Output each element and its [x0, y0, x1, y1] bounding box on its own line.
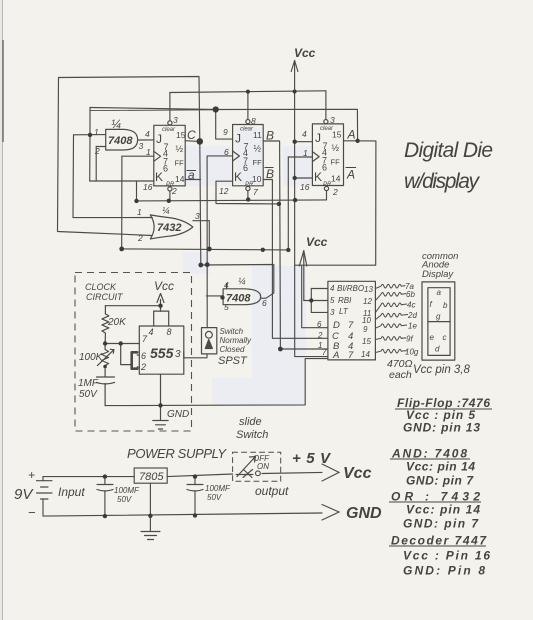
svg-text:clear: clear [162, 127, 176, 133]
svg-text:6: 6 [317, 320, 322, 329]
svg-text:20K: 20K [107, 317, 127, 328]
svg-text:4: 4 [330, 284, 335, 293]
svg-text:8: 8 [251, 116, 256, 126]
svg-text:C: C [187, 128, 196, 142]
svg-text:2: 2 [317, 331, 323, 340]
svg-text:FF: FF [175, 159, 185, 168]
svg-text:6: 6 [141, 351, 146, 361]
svg-text:SPST: SPST [218, 355, 248, 367]
svg-text:PR: PR [166, 182, 175, 188]
svg-text:2: 2 [137, 233, 143, 243]
svg-text:K: K [314, 170, 322, 184]
svg-text:1: 1 [303, 148, 308, 158]
svg-text:FF: FF [253, 158, 263, 167]
svg-text:GND: pin 7: GND: pin 7 [403, 517, 479, 531]
svg-text:15: 15 [362, 337, 371, 346]
svg-text:6b: 6b [406, 290, 415, 299]
svg-text:15: 15 [332, 130, 342, 140]
svg-text:A: A [346, 168, 355, 182]
svg-text:16: 16 [143, 182, 153, 192]
svg-text:Vcc: pin 14: Vcc: pin 14 [406, 460, 475, 474]
svg-text:clear: clear [240, 127, 254, 133]
svg-text:A: A [347, 128, 356, 142]
svg-text:2: 2 [332, 187, 338, 197]
svg-text:5: 5 [330, 296, 335, 305]
svg-text:4: 4 [145, 129, 150, 139]
svg-text:¼: ¼ [111, 117, 121, 131]
svg-text:GND: pin 13: GND: pin 13 [403, 421, 480, 435]
svg-text:B: B [266, 167, 274, 181]
svg-text:GND: GND [167, 409, 189, 420]
svg-text:Decoder 7447: Decoder 7447 [391, 534, 487, 548]
svg-text:Vcc: Vcc [343, 465, 372, 482]
svg-text:9: 9 [363, 325, 368, 334]
svg-text:GND: pin 7: GND: pin 7 [406, 474, 474, 488]
svg-text:2: 2 [94, 146, 100, 156]
svg-text:1MF: 1MF [78, 378, 99, 389]
svg-text:K: K [234, 170, 242, 184]
svg-text:12: 12 [363, 297, 372, 306]
svg-text:7408: 7408 [108, 135, 133, 147]
svg-text:FF: FF [331, 158, 341, 167]
svg-text:3: 3 [173, 115, 178, 125]
svg-text:50V: 50V [79, 389, 98, 400]
svg-text:Vcc : Pin 16: Vcc : Pin 16 [403, 549, 490, 563]
svg-text:d: d [435, 345, 440, 354]
svg-text:7805: 7805 [139, 471, 164, 483]
svg-text:9f: 9f [406, 335, 413, 344]
svg-text:1: 1 [94, 127, 99, 137]
svg-text:4: 4 [302, 129, 307, 139]
svg-text:7: 7 [322, 348, 327, 357]
svg-text:3: 3 [330, 115, 335, 125]
svg-text:100K: 100K [79, 352, 104, 363]
svg-text:100MF: 100MF [205, 484, 231, 493]
svg-text:+5V: +5V [292, 450, 332, 467]
svg-text:7: 7 [253, 187, 258, 197]
svg-text:¼: ¼ [238, 276, 246, 286]
svg-text:5: 5 [224, 302, 229, 312]
svg-text:100MF: 100MF [114, 486, 140, 495]
svg-text:GND: GND [346, 505, 382, 522]
svg-text:Digital Die: Digital Die [404, 139, 493, 162]
svg-text:+: + [28, 468, 35, 482]
svg-text:8: 8 [167, 327, 172, 337]
svg-text:16: 16 [300, 182, 310, 192]
svg-text:3: 3 [195, 211, 200, 221]
svg-text:OR : 7432: OR : 7432 [391, 490, 480, 504]
svg-text:3: 3 [330, 308, 335, 317]
svg-text:2d: 2d [407, 311, 417, 320]
svg-text:each: each [389, 369, 412, 381]
svg-text:Normally: Normally [220, 336, 253, 345]
svg-text:Vcc: Vcc [154, 279, 174, 293]
svg-text:RBI: RBI [338, 296, 352, 305]
svg-text:2: 2 [140, 362, 146, 372]
svg-text:½: ½ [332, 143, 340, 153]
svg-text:Vcc: Vcc [294, 46, 316, 60]
svg-text:B: B [266, 129, 274, 143]
svg-text:3: 3 [175, 349, 181, 360]
svg-text:Vcc: pin 14: Vcc: pin 14 [406, 503, 480, 517]
svg-text:10: 10 [252, 174, 262, 184]
svg-text:slide: slide [239, 416, 262, 428]
svg-text:6: 6 [224, 147, 229, 157]
svg-text:10g: 10g [405, 348, 419, 357]
svg-text:13: 13 [364, 285, 373, 294]
svg-text:J: J [235, 132, 241, 146]
svg-text:BI/RBO: BI/RBO [337, 284, 364, 293]
svg-text:½: ½ [176, 144, 184, 154]
svg-text:CLOCK: CLOCK [85, 282, 117, 292]
svg-text:6: 6 [322, 163, 327, 173]
svg-text:4: 4 [149, 327, 154, 337]
svg-text:GND: Pin 8: GND: Pin 8 [403, 564, 485, 578]
svg-text:10: 10 [362, 316, 371, 325]
svg-text:555: 555 [150, 345, 174, 361]
svg-text:Closed: Closed [220, 345, 245, 354]
svg-text:14: 14 [331, 174, 341, 184]
svg-text:Switch: Switch [220, 327, 244, 336]
svg-text:c: c [443, 333, 447, 342]
svg-text:7: 7 [348, 350, 354, 361]
svg-text:Display: Display [422, 269, 454, 280]
svg-text:½: ½ [254, 144, 262, 154]
svg-text:CIRCUIT: CIRCUIT [86, 292, 124, 302]
svg-text:9: 9 [223, 127, 228, 137]
svg-text:4: 4 [224, 280, 229, 290]
svg-text:POWER SUPPLY: POWER SUPPLY [127, 446, 227, 461]
svg-text:50V: 50V [207, 493, 222, 502]
svg-text:b: b [443, 301, 448, 310]
svg-text:AND: 7408: AND: 7408 [391, 447, 467, 461]
svg-text:Vcc pin 3,8: Vcc pin 3,8 [413, 364, 470, 376]
svg-text:Switch: Switch [236, 429, 268, 441]
svg-text:9V: 9V [14, 486, 34, 503]
svg-text:−: − [28, 505, 36, 520]
svg-text:7432: 7432 [157, 222, 181, 234]
svg-text:A: A [332, 350, 339, 361]
svg-text:ON: ON [257, 462, 269, 471]
svg-text:3: 3 [139, 141, 144, 151]
svg-text:a: a [437, 288, 442, 297]
svg-text:Vcc: Vcc [306, 235, 328, 249]
svg-text:J: J [156, 132, 162, 146]
svg-text:g: g [436, 312, 441, 321]
svg-text:Input: Input [58, 485, 85, 499]
svg-text:¼: ¼ [162, 206, 170, 216]
svg-text:50V: 50V [117, 495, 132, 504]
svg-text:1: 1 [137, 207, 142, 217]
svg-text:e: e [430, 333, 435, 342]
svg-text:1: 1 [146, 147, 151, 157]
svg-text:7: 7 [348, 320, 354, 331]
svg-text:11: 11 [253, 130, 262, 140]
svg-text:14: 14 [361, 350, 370, 359]
svg-text:6: 6 [163, 164, 168, 174]
svg-text:7408: 7408 [226, 293, 251, 305]
svg-text:14: 14 [175, 174, 185, 184]
svg-text:15: 15 [176, 130, 186, 140]
svg-text:J: J [315, 131, 321, 145]
svg-text:K: K [155, 170, 163, 184]
svg-text:w/display: w/display [404, 170, 481, 193]
svg-text:4c: 4c [407, 301, 415, 310]
svg-text:LT: LT [339, 307, 349, 316]
svg-text:6: 6 [262, 298, 267, 308]
svg-text:12: 12 [219, 186, 229, 196]
svg-text:1e: 1e [408, 322, 417, 331]
svg-text:6: 6 [243, 163, 248, 173]
svg-text:D: D [333, 320, 340, 331]
svg-text:output: output [255, 484, 289, 498]
